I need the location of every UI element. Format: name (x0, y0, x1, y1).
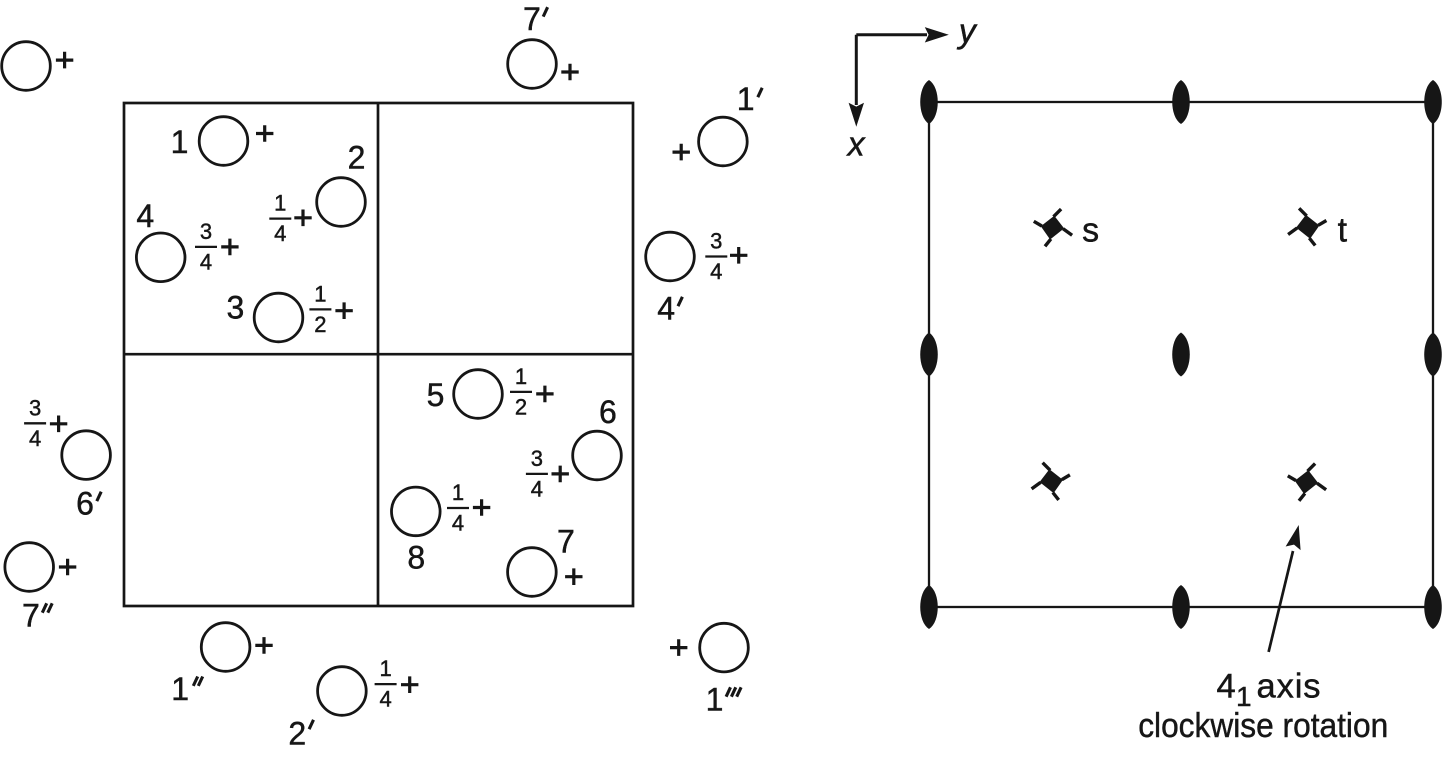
svg-text:4: 4 (29, 426, 41, 451)
svg-text:4: 4 (274, 221, 286, 246)
svg-text:1: 1 (274, 191, 286, 216)
prime of 2prime (309, 720, 313, 729)
y axis arrowhead (925, 27, 949, 42)
svg-text:4: 4 (452, 511, 464, 536)
prime of 7prime (543, 7, 547, 16)
atom circle 1tripleprime (700, 623, 749, 672)
svg-text:7: 7 (523, 1, 541, 37)
svg-text:3: 3 (227, 289, 245, 325)
plus signs (50, 52, 748, 693)
fraction 3/4 at circle6 (526, 446, 548, 502)
svg-text:7: 7 (557, 524, 575, 560)
svg-text:x: x (846, 125, 866, 163)
svg-text:2: 2 (348, 140, 366, 176)
fraction 1/2 at circle5 (510, 364, 532, 420)
plus 7doubleprime (59, 559, 76, 576)
svg-text:y: y (957, 12, 978, 50)
svg-text:4: 4 (1217, 667, 1236, 705)
plus frac circle6 (552, 466, 569, 483)
prime of 6prime (97, 492, 101, 501)
svg-text:1: 1 (171, 124, 189, 160)
plus frac 4prime (730, 247, 747, 264)
symmetry cell square (929, 102, 1433, 607)
atom circle 2prime (318, 667, 367, 716)
plus top-left (56, 52, 73, 69)
y axis shaft (856, 33, 927, 36)
plus frac circle3 (335, 302, 352, 319)
svg-text:3: 3 (710, 229, 722, 254)
screw axis bottom-right (1288, 464, 1326, 501)
fraction 3/4 at 4prime (705, 229, 727, 285)
prime of 1prime (758, 88, 762, 97)
unit cell square (124, 103, 633, 606)
svg-text:4: 4 (379, 687, 391, 712)
fraction 1/4 at circle2 (269, 191, 291, 247)
lens center (1172, 333, 1190, 377)
atom circle 4 (136, 233, 185, 282)
plus circle1 (256, 125, 273, 142)
atom circle 3 (254, 293, 303, 342)
atom circle 1 (199, 117, 248, 166)
svg-text:2: 2 (515, 395, 527, 420)
x axis arrowhead (849, 103, 864, 127)
atom circle 5 (454, 370, 503, 419)
plus 1doubleprime (255, 637, 272, 654)
plus 7prime (561, 64, 578, 81)
x axis shaft (855, 35, 858, 105)
plus frac circle5 (536, 386, 553, 403)
screw axis s (1034, 209, 1072, 246)
prime of 4prime (678, 297, 682, 306)
svg-text:8: 8 (407, 540, 425, 576)
plus frac circle2 (294, 210, 311, 227)
plus frac 6prime (50, 416, 67, 433)
screw axis bottom-left (1032, 463, 1070, 500)
atom circle 8 (392, 487, 441, 536)
lens mid-left (920, 333, 938, 377)
lens top-left (920, 80, 938, 124)
lens mid-right (1424, 333, 1442, 377)
svg-text:2: 2 (288, 716, 306, 752)
primes of 1doubleprime (193, 677, 197, 686)
fraction 1/4 at 2prime (375, 656, 397, 712)
atom circle 6 (573, 431, 622, 480)
fraction 1/4 at circle8 (447, 480, 469, 535)
svg-text:4: 4 (200, 250, 212, 275)
lens bottom-left (920, 585, 938, 629)
svg-text:4: 4 (657, 291, 675, 327)
svg-text:6: 6 (599, 394, 617, 430)
primes of 7doubleprime (42, 603, 46, 612)
atom circle top-left outside (2, 42, 51, 91)
svg-text:4: 4 (710, 259, 722, 284)
lens top-right (1424, 80, 1442, 124)
4-1 screw axes (1032, 208, 1327, 501)
svg-text:1: 1 (379, 656, 391, 681)
primes of 1tripleprime (726, 687, 730, 696)
svg-text:axis: axis (1257, 667, 1322, 705)
plus frac 2prime (401, 676, 418, 693)
lens bottom-mid (1172, 585, 1190, 629)
atom circle 1doubleprime (201, 623, 250, 672)
plus 1prime (673, 144, 690, 161)
svg-text:1: 1 (515, 364, 527, 389)
svg-text:s: s (1082, 211, 1099, 249)
plus frac circle8 (473, 499, 490, 516)
svg-text:7: 7 (22, 598, 40, 634)
prime ticks (42, 7, 762, 729)
svg-text:t: t (1338, 211, 1348, 249)
atom circle 7 (508, 548, 557, 597)
fraction 3/4 at circle4 (195, 219, 217, 275)
annotation arrow (1269, 551, 1293, 652)
fraction 3/4 at 6prime (24, 395, 46, 451)
svg-text:6: 6 (76, 485, 94, 521)
atom circle 7prime (508, 40, 557, 89)
screw axis t (1288, 208, 1326, 245)
plus circle7 (565, 568, 582, 585)
svg-text:3: 3 (29, 395, 41, 420)
numeral labels inside cell (22, 1, 754, 752)
vertical divider (377, 103, 380, 606)
axes (856, 35, 927, 105)
atom circle 4prime (646, 232, 695, 281)
fraction 1/2 at circle3 (309, 282, 331, 338)
svg-text:1: 1 (171, 671, 189, 707)
atom circle 6prime (62, 431, 111, 480)
2-fold lenses (920, 80, 1442, 629)
svg-text:4: 4 (136, 198, 154, 234)
svg-text:3: 3 (531, 446, 543, 471)
svg-text:1: 1 (706, 681, 724, 717)
svg-text:4: 4 (531, 477, 543, 502)
fractions: numerator, bar, denominator (24, 191, 727, 712)
lens bottom-right (1424, 585, 1442, 629)
atom circle 1prime (699, 117, 748, 166)
svg-text:1: 1 (314, 282, 326, 307)
atom circle 7doubleprime (5, 543, 54, 592)
svg-text:2: 2 (314, 312, 326, 337)
svg-text:3: 3 (200, 219, 212, 244)
svg-text:1: 1 (452, 480, 464, 505)
horizontal divider (124, 353, 633, 356)
lens top-mid (1172, 80, 1190, 124)
svg-text:5: 5 (427, 377, 445, 413)
svg-text:clockwise rotation: clockwise rotation (1138, 707, 1388, 745)
atom circle 2 (317, 178, 366, 227)
svg-text:1: 1 (737, 81, 755, 117)
plus frac circle4 (221, 239, 238, 256)
plus 1tripleprime (670, 639, 687, 656)
